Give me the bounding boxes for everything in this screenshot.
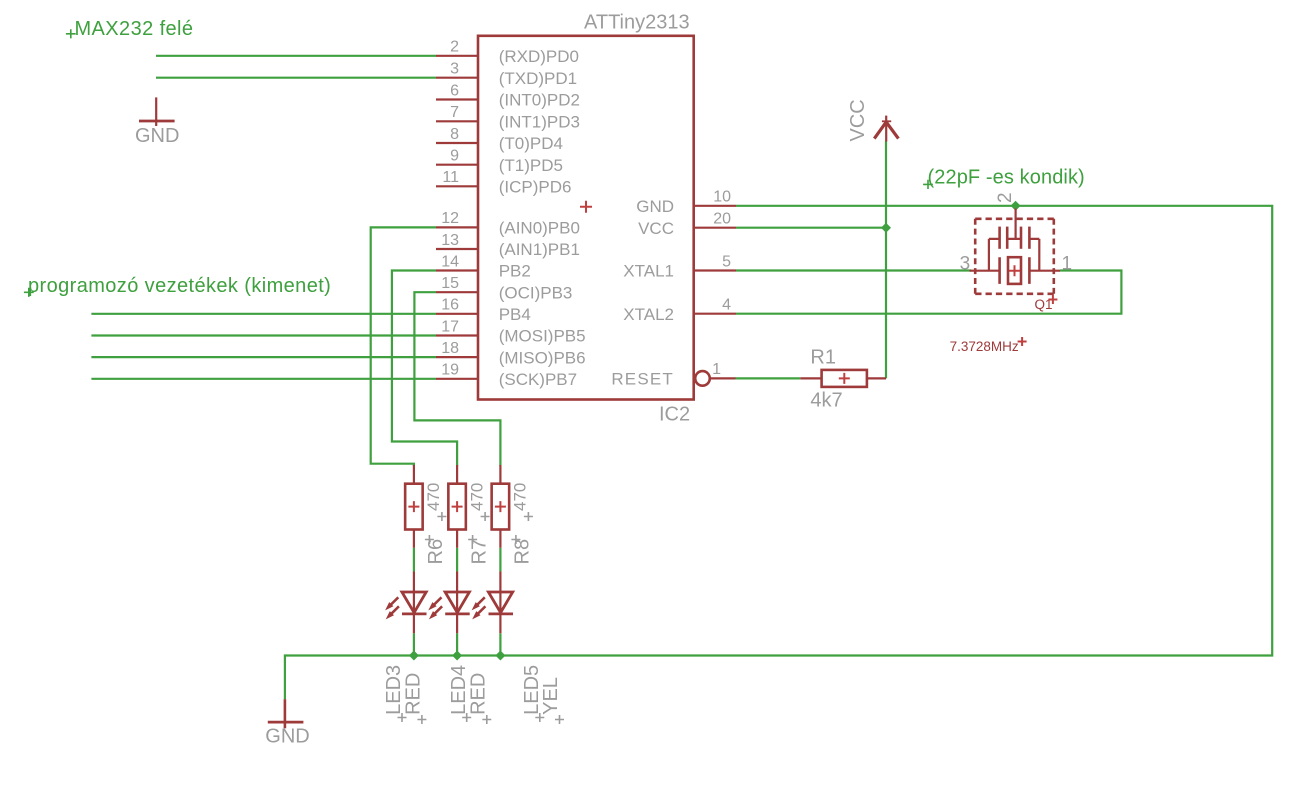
svg-text:11: 11	[442, 169, 459, 186]
svg-text:(SCK)PB7: (SCK)PB7	[499, 370, 577, 389]
svg-text:19: 19	[441, 362, 459, 379]
svg-text:(INT1)PD3: (INT1)PD3	[499, 113, 580, 132]
svg-text:(RXD)PD0: (RXD)PD0	[499, 47, 579, 66]
svg-text:(TXD)PD1: (TXD)PD1	[499, 69, 577, 88]
svg-text:18: 18	[441, 340, 459, 357]
svg-text:17: 17	[441, 318, 459, 335]
svg-text:(MOSI)PB5: (MOSI)PB5	[499, 327, 586, 346]
svg-text:XTAL1: XTAL1	[623, 262, 674, 281]
svg-text:4: 4	[722, 297, 731, 314]
svg-text:6: 6	[450, 82, 459, 99]
svg-text:RESET: RESET	[611, 370, 674, 389]
svg-text:ATTiny2313: ATTiny2313	[584, 12, 690, 34]
svg-text:R6: R6	[425, 539, 447, 565]
svg-text:VCC: VCC	[847, 99, 869, 141]
svg-text:R7: R7	[468, 539, 490, 565]
svg-text:GND: GND	[135, 125, 179, 147]
svg-text:YEL: YEL	[540, 677, 562, 715]
svg-text:1: 1	[712, 361, 721, 378]
svg-text:(OCI)PB3: (OCI)PB3	[499, 283, 573, 302]
svg-text:2: 2	[995, 192, 1016, 203]
svg-text:10: 10	[713, 189, 731, 206]
svg-text:(MISO)PB6: (MISO)PB6	[499, 348, 586, 367]
svg-text:14: 14	[441, 253, 459, 270]
svg-text:(AIN1)PB1: (AIN1)PB1	[499, 240, 580, 259]
svg-text:PB4: PB4	[499, 305, 531, 324]
svg-text:15: 15	[441, 275, 459, 292]
svg-text:7.3728MHz: 7.3728MHz	[950, 339, 1019, 354]
svg-text:(ICP)PD6: (ICP)PD6	[499, 178, 572, 197]
svg-text:R1: R1	[810, 346, 836, 368]
svg-text:(INT0)PD2: (INT0)PD2	[499, 91, 580, 110]
svg-text:1: 1	[1062, 254, 1073, 275]
svg-text:470: 470	[424, 483, 443, 511]
svg-text:(T0)PD4: (T0)PD4	[499, 134, 563, 153]
svg-text:470: 470	[511, 483, 530, 511]
svg-text:RED: RED	[403, 673, 425, 715]
svg-text:R8: R8	[512, 539, 534, 565]
svg-text:8: 8	[450, 126, 459, 143]
svg-text:4k7: 4k7	[810, 390, 842, 412]
svg-text:RED: RED	[468, 673, 490, 715]
svg-text:GND: GND	[636, 197, 674, 216]
svg-text:3: 3	[960, 254, 971, 275]
svg-text:IC2: IC2	[659, 404, 690, 426]
svg-text:470: 470	[467, 483, 486, 511]
svg-text:MAX232 felé: MAX232 felé	[75, 18, 194, 40]
svg-text:3: 3	[450, 61, 459, 78]
svg-text:XTAL2: XTAL2	[623, 305, 674, 324]
svg-text:PB2: PB2	[499, 262, 531, 281]
svg-text:7: 7	[450, 104, 459, 121]
svg-text:13: 13	[441, 232, 459, 249]
svg-text:(AIN0)PB0: (AIN0)PB0	[499, 219, 580, 238]
svg-text:programozó vezetékek (kimenet): programozó vezetékek (kimenet)	[28, 275, 331, 297]
svg-text:VCC: VCC	[638, 219, 674, 238]
svg-text:20: 20	[713, 211, 731, 228]
svg-text:9: 9	[450, 148, 459, 165]
svg-text:16: 16	[441, 297, 459, 314]
svg-text:2: 2	[450, 39, 459, 56]
svg-text:5: 5	[722, 253, 731, 270]
svg-text:12: 12	[441, 210, 459, 227]
svg-text:(T1)PD5: (T1)PD5	[499, 156, 563, 175]
svg-text:GND: GND	[265, 725, 309, 747]
svg-text:(22pF -es kondik): (22pF -es kondik)	[928, 166, 1085, 188]
